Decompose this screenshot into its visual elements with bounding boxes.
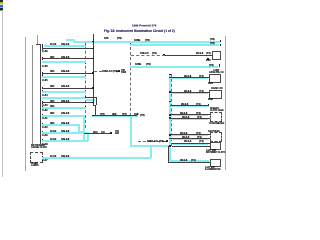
panel lamp 2 [211, 87, 223, 89]
wire g10 highlighted [50, 138, 56, 141]
panel lamps box dashed [30, 152, 43, 163]
riser to lower section highlighted [130, 115, 132, 147]
bus dots [169, 74, 171, 76]
title line 2 [104, 29, 175, 33]
wire g6 highlighted [50, 105, 54, 108]
wire g2 highlighted [42, 61, 86, 63]
panel lamps label [31, 162, 39, 167]
lamp feed bus right [169, 75, 171, 161]
connector pin brackets left rows [42, 44, 43, 47]
lamp box bottom [210, 159, 221, 167]
wire g4 highlighted [42, 91, 86, 93]
panel lamp 1 [213, 69, 219, 71]
dashed continuation 158A left [94, 71, 102, 72]
dashed connector line right of splice [130, 47, 131, 116]
connector dashed line C-39 [85, 41, 86, 128]
rheostat body line [32, 45, 33, 144]
wire 165B second run highlighted [130, 44, 219, 46]
diagram frame right border [225, 36, 226, 170]
tachometer box dashed [210, 112, 222, 122]
connector label C-39 [42, 50, 48, 53]
diagram frame left border [25, 37, 26, 171]
instrument panel connector bracket [40, 44, 41, 144]
main run 158 highlighted [92, 115, 138, 117]
connector top stub [36, 44, 41, 45]
wire g9 highlighted [50, 130, 56, 133]
splice bus vertical [93, 34, 94, 106]
instrument panel label [31, 144, 47, 149]
cluster box [210, 142, 221, 150]
wire 165 top run highlighted [66, 39, 74, 41]
gauge box 2 dashed [208, 130, 220, 132]
wire jogs from cluster rows [83, 115, 85, 141]
twisted pair loop [85, 97, 96, 98]
lower feed run highlighted [130, 145, 170, 147]
wire g5 lower [50, 100, 54, 103]
wire g8 highlighted [50, 122, 54, 125]
speedometer stub highlighted [170, 105, 209, 106]
branch wire with arrow [84, 133, 112, 134]
wire g1 highlighted [44, 45, 87, 47]
wire g4 [50, 85, 54, 88]
wire g7 highlighted [50, 112, 54, 115]
splice dots [92, 41, 94, 43]
bus bottom elbow [168, 162, 210, 163]
wire to dimmer breaker box [140, 52, 149, 55]
wire g5 highlighted [42, 97, 86, 99]
panel lamps riser [150, 146, 152, 158]
bus elbow to main run [93, 105, 96, 106]
dimmer breaker box [212, 51, 221, 60]
title line 1 [132, 24, 156, 27]
pin ticks on dashed connector [85, 44, 86, 47]
wire g3 highlighted [42, 76, 86, 78]
panel lamps wire highlighted [50, 155, 56, 158]
wire to gauge lamp stub highlighted [130, 66, 218, 68]
wire g2 [50, 56, 54, 59]
wire g3 [50, 70, 54, 73]
dashed continuation 158A right [147, 140, 157, 143]
wire g1 lower [42, 48, 94, 49]
window icon fragment top-left [0, 0, 3, 2]
screen divider line left [2, 10, 3, 177]
